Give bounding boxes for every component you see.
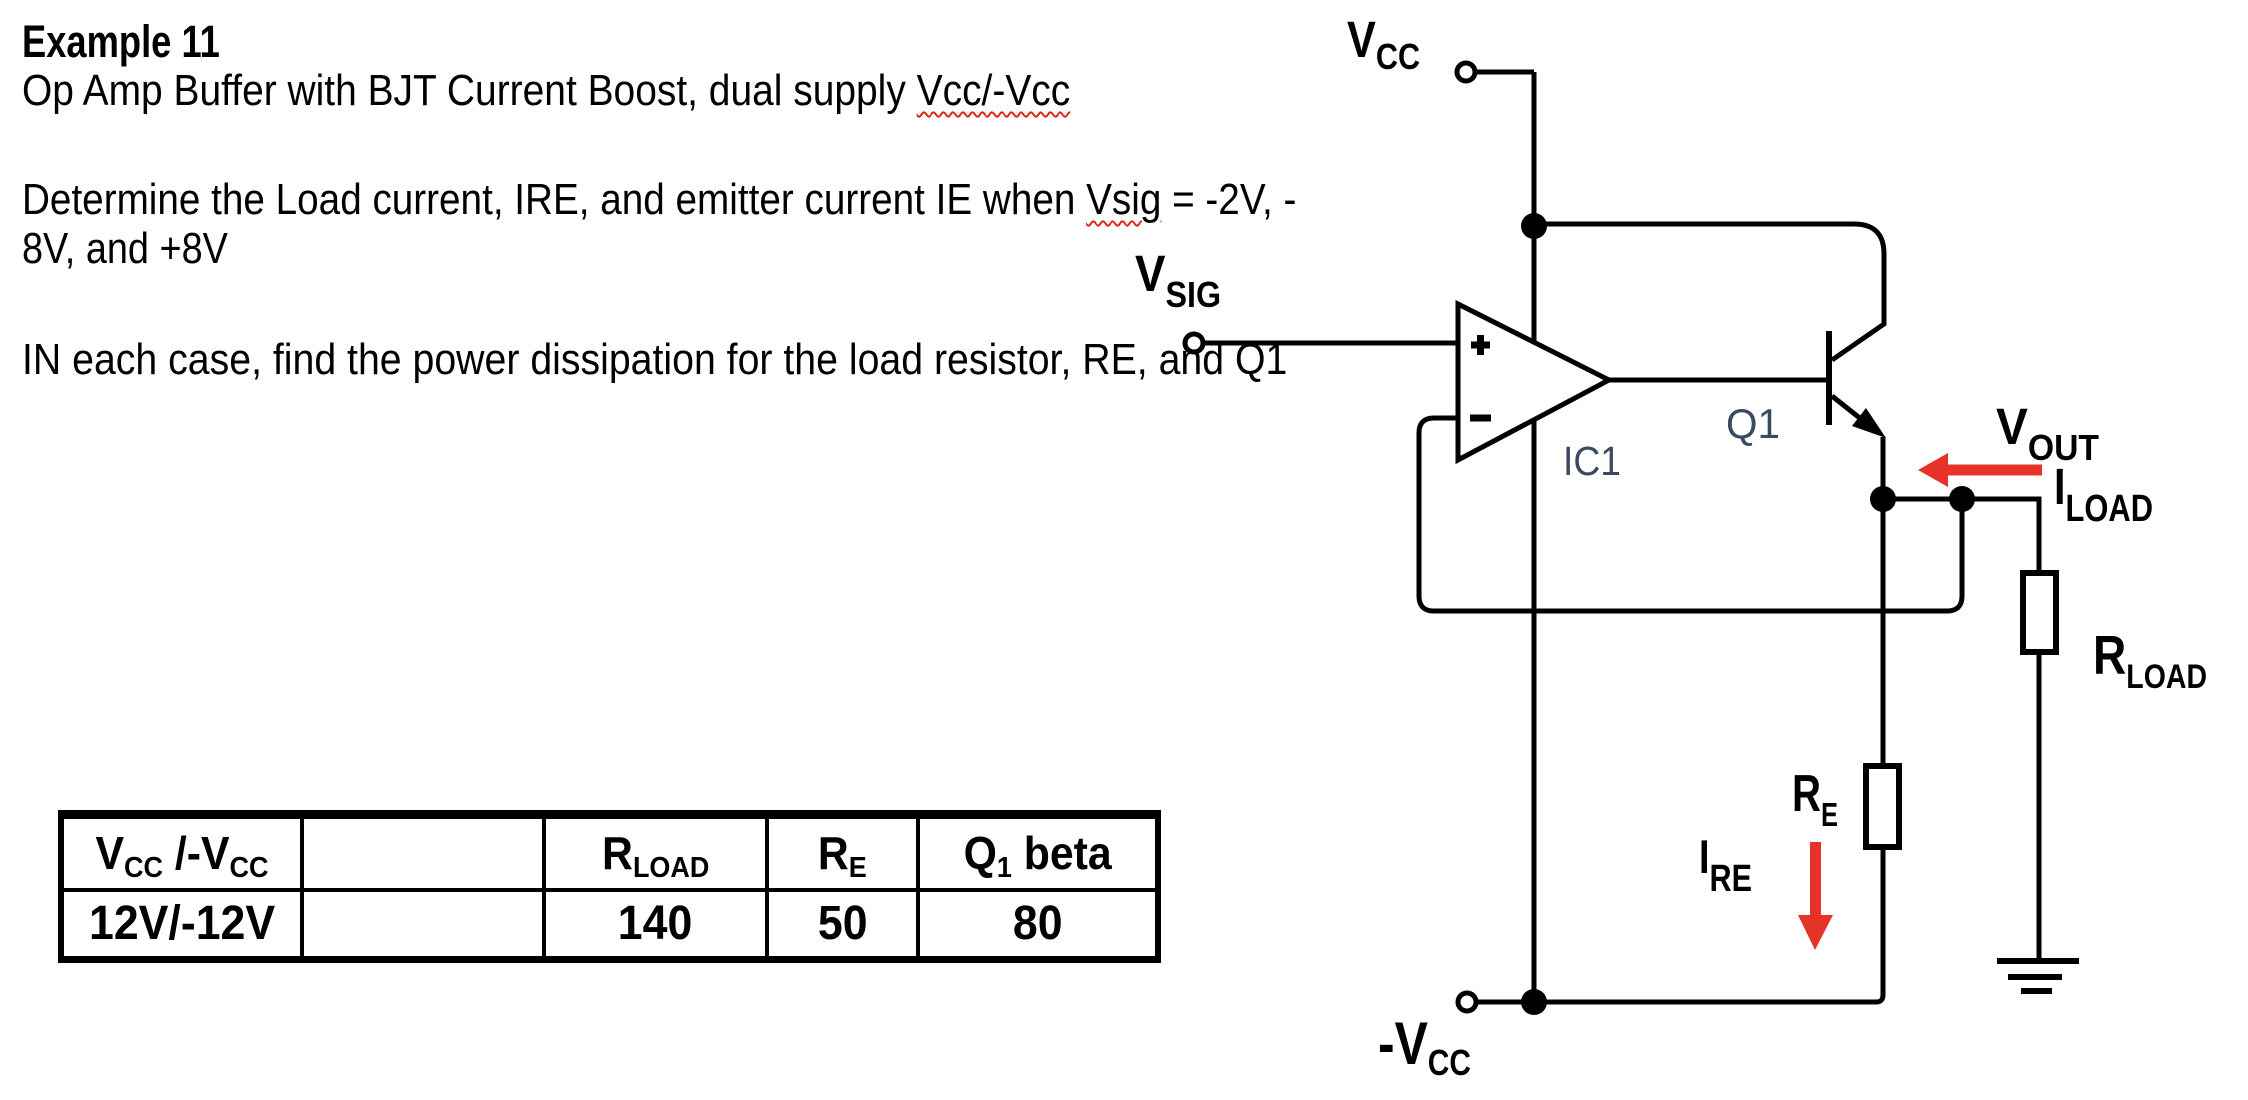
op-amp IC1 triangle	[1458, 304, 1609, 460]
label -Vcc	[1378, 1014, 1471, 1074]
label Vsig	[1135, 248, 1221, 299]
label Iload	[2054, 461, 2153, 512]
wire: emitter down through RE to bottom rail	[1476, 437, 1883, 1002]
wire: Vsig input to op-amp plus	[1203, 341, 1458, 346]
node junction dot on rail at top wire	[1521, 213, 1547, 239]
wire: output node to RLOAD top	[1883, 499, 2039, 573]
node junction dot on rail at bottom wire	[1521, 989, 1547, 1015]
transistor Q1 emitter arrowhead	[1852, 408, 1886, 438]
transistor Q1 base bar	[1826, 331, 1832, 425]
node dot at emitter/output	[1870, 486, 1896, 512]
label IRE	[1699, 833, 1752, 880]
resistor RE body	[1866, 766, 1899, 847]
arrow Vout (red, pointing left)	[1918, 453, 2042, 487]
wire: feedback from output node to op-amp minus input	[1419, 418, 1962, 611]
transistor Q1 emitter lead	[1832, 396, 1866, 423]
label RE	[1792, 768, 1838, 820]
wire: RLOAD bottom to ground	[2037, 652, 2042, 961]
text line: IN each case	[22, 338, 1287, 382]
data table	[58, 810, 1161, 963]
label Vcc	[1347, 14, 1420, 65]
wire: op-amp output to Q1 base	[1609, 378, 1827, 383]
text line: determine line 1	[22, 178, 1296, 222]
label Q1	[1726, 403, 1780, 445]
terminal Vsig (open circle)	[1185, 334, 1203, 352]
wire: Vcc terminal to rail	[1474, 70, 1534, 75]
wire: main vertical supply rail Vcc to -Vcc	[1532, 72, 1537, 1002]
label Rload	[2093, 628, 2207, 683]
text line: subtitle	[22, 69, 1070, 113]
label Vout	[1996, 401, 2099, 452]
wire: top horizontal to Q1 collector	[1534, 224, 1884, 360]
label IC1	[1563, 441, 1621, 482]
terminal -Vcc (open circle)	[1458, 993, 1476, 1011]
resistor RLOAD body	[2023, 573, 2056, 652]
op-amp plus input symbol	[1471, 335, 1490, 355]
terminal Vcc (open circle)	[1457, 63, 1475, 81]
text line: Example 11	[22, 19, 220, 64]
op-amp minus input symbol	[1470, 415, 1491, 422]
node dot at feedback tap	[1949, 486, 1975, 512]
ground symbol	[1997, 958, 2079, 964]
arrow IRE (red, pointing down)	[1798, 842, 1833, 950]
text line: determine line 2	[22, 227, 228, 271]
